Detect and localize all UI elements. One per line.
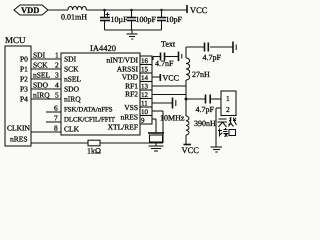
inductor 390nH — [186, 116, 216, 135]
node RF junction — [185, 98, 188, 101]
ground flag VSS pin11 — [152, 98, 176, 109]
wire P0-SDI — [31, 58, 61, 60]
svg-text:10pF: 10pF — [166, 15, 183, 24]
power flag VCC bottom — [182, 135, 200, 155]
wire nRES up to pin10 — [162, 111, 164, 143]
net label nSEL pin 3 — [33, 71, 59, 80]
svg-text:14: 14 — [141, 74, 149, 82]
wire antenna vertical — [185, 47, 187, 116]
svg-text:27nH: 27nH — [192, 70, 210, 79]
label antenna interface chinese — [218, 118, 237, 138]
pin box 11 — [140, 99, 152, 108]
pin box 14 — [140, 73, 152, 82]
svg-text:CLKIN: CLKIN — [7, 124, 30, 133]
svg-text:nINT/VDI: nINT/VDI — [106, 56, 138, 65]
svg-text:1: 1 — [55, 51, 59, 60]
pin box 9 — [140, 116, 152, 125]
svg-text:MCU: MCU — [5, 35, 26, 45]
net label SDO pin 4 — [33, 81, 59, 90]
svg-text:SDI: SDI — [33, 51, 46, 60]
svg-text:VSS: VSS — [124, 103, 138, 112]
net label nIRQ pin 5 — [33, 91, 59, 100]
svg-text:11: 11 — [141, 100, 148, 108]
wire P3-SDO — [31, 88, 61, 90]
antenna probe top — [233, 42, 236, 54]
resistor R1 1k — [31, 140, 163, 155]
pin box 10 — [140, 107, 152, 116]
wire P4-nIRQ — [31, 98, 61, 100]
svg-text:0.01mH: 0.01mH — [61, 13, 87, 22]
svg-text:7: 7 — [54, 114, 58, 123]
svg-text:13: 13 — [141, 83, 149, 91]
svg-text:nIRQ: nIRQ — [33, 91, 50, 100]
svg-text:1: 1 — [226, 94, 230, 103]
svg-text:390nH: 390nH — [194, 119, 216, 128]
ground under caps — [127, 30, 138, 39]
svg-text:1kΩ: 1kΩ — [87, 147, 101, 156]
svg-text:10µF: 10µF — [111, 15, 129, 24]
svg-text:IA4420: IA4420 — [90, 43, 116, 53]
svg-text:SDO: SDO — [33, 81, 49, 90]
svg-text:SDI: SDI — [64, 55, 77, 64]
svg-text:100pF: 100pF — [136, 15, 157, 24]
crystal X1 10MHz — [148, 114, 185, 146]
svg-text:SCK: SCK — [33, 61, 48, 70]
capacitor 4.7pF top — [203, 43, 222, 63]
capacitor C2 100pF — [127, 9, 157, 30]
svg-text:VCC: VCC — [190, 5, 208, 15]
svg-text:4: 4 — [55, 81, 59, 90]
MCU U2 box — [5, 35, 31, 146]
wire antenna bottom — [186, 98, 221, 100]
svg-text:VDD: VDD — [21, 5, 39, 15]
svg-text:4.7pF: 4.7pF — [203, 53, 222, 62]
inductor 27nH — [186, 58, 210, 80]
svg-text:XTL/REF: XTL/REF — [108, 123, 138, 132]
svg-text:9: 9 — [141, 117, 145, 125]
wire RF1 — [152, 85, 186, 87]
net label SDI pin 1 — [33, 51, 59, 60]
svg-text:16: 16 — [141, 57, 149, 65]
svg-text:4.7pF: 4.7pF — [196, 105, 215, 114]
wire pin7 stub — [46, 121, 61, 123]
power flag VDD — [14, 5, 48, 15]
wire CLKIN-CLK — [31, 131, 61, 133]
svg-text:Text: Text — [161, 40, 176, 49]
svg-text:SCK: SCK — [64, 65, 79, 74]
svg-text:SDO: SDO — [64, 85, 80, 94]
svg-text:P3: P3 — [20, 85, 28, 94]
svg-text:4.7nF: 4.7nF — [155, 59, 174, 68]
svg-text:3: 3 — [55, 71, 59, 80]
wire P1-SCK — [31, 68, 61, 70]
capacitor C1 10uF polarized — [100, 9, 128, 30]
svg-text:nSEL: nSEL — [64, 75, 82, 84]
svg-text:VCC: VCC — [182, 145, 200, 155]
svg-text:VDD: VDD — [122, 73, 139, 82]
power flag VCC top right — [187, 5, 208, 15]
power flag VCC pin14 — [152, 74, 179, 83]
svg-text:P2: P2 — [20, 75, 28, 84]
net label SCK pin 2 — [33, 61, 59, 70]
svg-text:nRES: nRES — [120, 113, 138, 122]
wire top rail — [86, 9, 187, 11]
svg-text:10: 10 — [141, 108, 149, 116]
connector J1 antenna — [221, 91, 236, 116]
ground under connector — [211, 147, 223, 152]
svg-text:RF2: RF2 — [125, 90, 138, 99]
capacitor C3 10pF — [157, 9, 183, 30]
svg-text:P4: P4 — [20, 95, 28, 104]
wire pin6 stub — [46, 111, 61, 113]
capacitor 4.7pF bottom — [196, 95, 215, 115]
wire RF2 — [152, 94, 186, 96]
svg-text:10MHz: 10MHz — [160, 114, 185, 123]
inductor L1 0.01mH — [61, 6, 87, 21]
svg-text:6: 6 — [54, 104, 58, 113]
svg-text:5: 5 — [55, 91, 59, 100]
svg-text:P0: P0 — [20, 55, 28, 64]
wire pin16 test point — [153, 57, 178, 61]
svg-text:12: 12 — [141, 91, 149, 99]
svg-text:2: 2 — [55, 61, 59, 70]
wire connector pin2 to ground — [216, 108, 221, 147]
wire P2-nSEL — [31, 78, 61, 80]
pin box 15 — [140, 65, 152, 74]
op-amp chip IA4420 U1 box — [61, 43, 140, 135]
svg-text:P1: P1 — [20, 65, 28, 74]
svg-text:nSEL: nSEL — [33, 71, 51, 80]
svg-text:CLK: CLK — [64, 125, 80, 134]
svg-text:FSK/DATA/nFFS: FSK/DATA/nFFS — [64, 107, 113, 114]
wire bottom rail of caps — [105, 29, 162, 31]
svg-text:15: 15 — [141, 66, 149, 74]
ground under crystal — [149, 146, 164, 151]
test point probe Text — [161, 40, 182, 62]
svg-text:nIRQ: nIRQ — [64, 95, 81, 104]
pin box 12 — [140, 90, 152, 99]
svg-text:VCC: VCC — [163, 74, 179, 83]
capacitor 4.7nF — [155, 53, 174, 69]
pin box 13 — [140, 82, 152, 91]
svg-text:8: 8 — [54, 124, 58, 133]
svg-text:nRES: nRES — [10, 135, 28, 144]
wire VDD to inductor — [48, 9, 68, 11]
pin box 16 — [140, 56, 152, 65]
svg-text:2: 2 — [226, 105, 230, 114]
wire antenna top — [186, 46, 233, 48]
